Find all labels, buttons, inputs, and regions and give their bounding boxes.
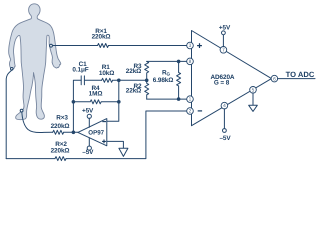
-5V terminal for pin 4 bbox=[223, 109, 225, 129]
wire: bottom run to R&times;2 bbox=[6, 158, 55, 160]
wire: column bottom to pin 1 bbox=[147, 98, 187, 100]
svg-text:R×3: R×3 bbox=[56, 115, 68, 122]
pin 3 bbox=[187, 42, 194, 49]
AD620A minus sign (pin 2) bbox=[198, 110, 202, 112]
svg-text:8: 8 bbox=[189, 59, 192, 65]
junction midpoint bbox=[145, 79, 149, 83]
wire: RA electrode to R&times;1 bbox=[52, 45, 97, 47]
op-amp AD620A triangle bbox=[192, 31, 272, 126]
wire: feedback riser x=72.7 bbox=[73, 80, 81, 132]
svg-text:RG: RG bbox=[162, 70, 171, 77]
svg-text:+5V: +5V bbox=[219, 25, 231, 32]
resistor RG vertical zigzag bbox=[177, 61, 181, 99]
ground stem for pin 5 bbox=[252, 93, 254, 105]
resistor R&times;3 zigzag bbox=[53, 130, 64, 134]
svg-text:–5V: –5V bbox=[219, 135, 231, 142]
svg-text:+5V: +5V bbox=[82, 108, 94, 115]
OP97 + input wire to ground bbox=[107, 141, 124, 148]
junction node A bbox=[117, 79, 121, 83]
wire: R&times;1 to AD620A pin 3 bbox=[109, 45, 187, 47]
junction: R4 right on node-A riser bbox=[117, 100, 121, 104]
svg-text:–5V: –5V bbox=[82, 149, 94, 156]
resistor R&times;1 zigzag bbox=[98, 44, 109, 48]
svg-text:1MΩ: 1MΩ bbox=[89, 90, 103, 97]
wire: node A to R3/R2 midpoint bbox=[119, 79, 147, 81]
junction RG bottom bbox=[177, 97, 181, 101]
svg-text:7: 7 bbox=[222, 47, 225, 53]
R3/R2 column: top wire to pin 8 bbox=[147, 60, 187, 62]
resistor R&times;2 zigzag bbox=[55, 157, 66, 161]
junction RG top bbox=[177, 60, 181, 64]
svg-text:3: 3 bbox=[189, 43, 192, 49]
pin 5 bbox=[250, 87, 257, 94]
op-amp OP97 triangle bbox=[78, 119, 107, 146]
wire: R&times;2 right then up to pin 2 bbox=[66, 111, 187, 159]
pin 7 bbox=[220, 47, 227, 54]
ground (OP97 +) bbox=[119, 148, 128, 156]
pin 8 bbox=[187, 58, 194, 65]
+5V terminal for pin 7 bbox=[222, 35, 224, 47]
svg-text:5: 5 bbox=[252, 87, 255, 93]
electrode LA (left hand) bbox=[11, 68, 14, 71]
resistor R4 zigzag bbox=[73, 100, 118, 104]
pin 2 bbox=[187, 108, 194, 115]
junction: R4 left bbox=[72, 100, 76, 104]
svg-text:10kΩ: 10kΩ bbox=[99, 70, 114, 77]
wire: R&times;3 to OP97 output node bbox=[64, 131, 78, 133]
electrode LL (left foot/ankle) bbox=[20, 109, 23, 112]
pin 6 bbox=[271, 75, 278, 82]
svg-text:220kΩ: 220kΩ bbox=[51, 123, 70, 130]
svg-text:0.1μF: 0.1μF bbox=[72, 66, 88, 73]
wire: LL ankle curve to R&times;3 bbox=[22, 112, 53, 133]
OP97 V- terminal bbox=[87, 146, 91, 150]
svg-text:G = 8: G = 8 bbox=[214, 80, 230, 87]
svg-text:22kΩ: 22kΩ bbox=[126, 68, 141, 75]
output wire TO ADC bbox=[278, 78, 316, 80]
wire: LA hand down left side to bottom bbox=[6, 70, 12, 159]
wire: R1 to node A bbox=[113, 79, 119, 81]
wire: node A riser down to OP97 inverting input bbox=[107, 80, 119, 121]
ground (pin 5) bbox=[249, 105, 258, 111]
OP97 V+ terminal bbox=[87, 114, 91, 118]
pin 1 bbox=[187, 96, 194, 103]
junction: OP97 output / feedback bbox=[72, 131, 76, 135]
pin 4 bbox=[221, 102, 228, 109]
svg-text:6: 6 bbox=[273, 76, 276, 82]
wire: C1 to R1 bbox=[84, 79, 101, 81]
resistor R1 zigzag bbox=[102, 78, 113, 82]
svg-text:1: 1 bbox=[189, 97, 192, 103]
svg-text:2: 2 bbox=[189, 109, 192, 115]
svg-text:4: 4 bbox=[223, 103, 226, 109]
svg-text:OP97: OP97 bbox=[88, 130, 104, 137]
OP97 minus sign bbox=[102, 121, 106, 123]
capacitor C1 plates bbox=[81, 76, 84, 85]
resistor R2 vertical zigzag bbox=[145, 80, 149, 99]
patient body silhouette bbox=[9, 4, 61, 120]
svg-text:TO ADC: TO ADC bbox=[286, 70, 315, 79]
svg-text:220kΩ: 220kΩ bbox=[51, 147, 70, 154]
resistor R3 vertical zigzag bbox=[145, 61, 149, 80]
svg-text:22kΩ: 22kΩ bbox=[126, 88, 141, 95]
electrode RA (right-arm elbow) bbox=[50, 44, 53, 47]
AD620A plus sign (pin 3) bbox=[197, 43, 202, 48]
svg-text:6.98kΩ: 6.98kΩ bbox=[153, 77, 174, 84]
OP97 plus sign bbox=[102, 140, 106, 144]
svg-text:220kΩ: 220kΩ bbox=[92, 34, 111, 41]
